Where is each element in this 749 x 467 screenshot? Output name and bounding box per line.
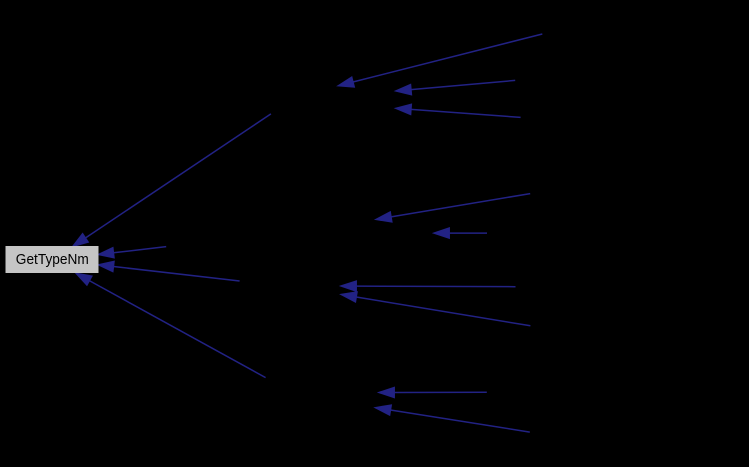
svg-text:GetTypeNm: GetTypeNm (16, 251, 89, 268)
